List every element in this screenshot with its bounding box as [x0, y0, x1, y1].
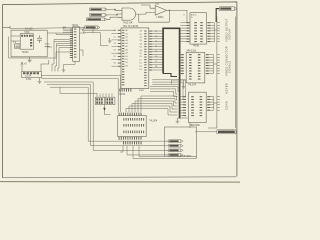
wire op-amp output and feedback loop [139, 10, 184, 22]
IC U5 body (large center) [121, 28, 149, 89]
svg-text:74166: 74166 [193, 46, 200, 48]
oscillator sub-box U1 [20, 34, 33, 50]
U9 lower second pin row [122, 141, 125, 144]
wire oscillator loop [11, 30, 47, 57]
net flag row 2 [90, 14, 108, 17]
U1 pin hatches top row [21, 35, 39, 74]
junction dot B [116, 14, 117, 15]
IC U2 body [73, 27, 80, 62]
wire U5 right pins to bus [152, 31, 162, 70]
U1 pin hatches right column [30, 39, 32, 41]
ground below SW1 [38, 78, 42, 84]
svg-text:Q4: Q4 [140, 43, 142, 45]
svg-text:74LS74: 74LS74 [188, 85, 197, 87]
net flag row 3 [86, 18, 107, 21]
net flag B4 [169, 154, 184, 157]
wire drops to U9 [118, 76, 120, 113]
wire oscillator to U2 [47, 33, 70, 47]
net flag row 1 [90, 8, 108, 11]
wire op-amp plus input [141, 5, 155, 8]
IC U9 body bottom-center [118, 116, 147, 137]
wire terminals to U5 [84, 28, 116, 46]
wire long horizontals from SW area [41, 76, 120, 88]
wire U6 right pins to connector [210, 23, 217, 42]
svg-text:MM 5320: MM 5320 [187, 51, 197, 53]
wire output down to U6 left pins [184, 10, 188, 22]
svg-text:7400: 7400 [24, 31, 30, 34]
wire fan U5 lower-right to U8 [150, 80, 185, 100]
RN2 hatches [107, 98, 109, 100]
svg-text:14.318: 14.318 [25, 28, 33, 31]
svg-text:Q6: Q6 [140, 50, 142, 52]
label pin numbers left of U5 [114, 30, 117, 64]
ground below oscillator box [28, 57, 32, 62]
svg-text:A2: A2 [126, 36, 128, 39]
svg-text:74S04: 74S04 [22, 51, 30, 54]
U9 top pin hatches [118, 113, 121, 116]
terminal circle T1 [82, 29, 84, 31]
label pin names inside U5 left edge [126, 29, 128, 67]
wire staircase from U9 bottom to flags [120, 146, 197, 159]
connector pin ticks middle group [217, 55, 220, 74]
page edge bottom shadow [0, 181, 240, 184]
arrowhead into U9 [103, 108, 106, 111]
connector box right side [217, 17, 235, 129]
IC U6 body top-right [190, 13, 206, 44]
wire U7 bottom left drop [172, 80, 187, 85]
wire vertical bus to SW1 [52, 40, 59, 72]
svg-text:D0: D0 [140, 56, 142, 58]
SW1 pin hatches [23, 72, 25, 74]
wire flags left stubs [166, 141, 169, 155]
U5 bottom pin hatches [118, 89, 121, 92]
svg-text:B0: B0 [126, 56, 128, 58]
svg-text:9334: 9334 [139, 90, 145, 92]
U7 right pin hatches [206, 54, 209, 55]
+5V arrow above SW1 [21, 62, 23, 71]
svg-text:Q0: Q0 [140, 31, 142, 33]
U2 inner pin hatches [74, 28, 76, 31]
wire top-left horizontal from border [3, 26, 85, 29]
junction dot A [114, 9, 115, 10]
wire flag1 to gate [108, 8, 123, 11]
svg-text:B3: B3 [126, 65, 128, 67]
crystal Y1 [15, 44, 20, 48]
svg-text:A5: A5 [126, 45, 128, 48]
U6 right pin hatches [207, 22, 210, 23]
U5 inner right hatch column [144, 30, 146, 33]
svg-text:A0: A0 [126, 29, 128, 32]
svg-text:74LS04: 74LS04 [149, 120, 158, 123]
U7 inner hatch columns [189, 54, 192, 55]
wire U3 output to op-amp [136, 12, 155, 14]
wire left L-feed [9, 37, 70, 59]
svg-text:Q3: Q3 [140, 40, 142, 42]
wire U7 right pins to connector [209, 55, 217, 74]
ground below U2 [62, 70, 66, 72]
svg-text:A1: A1 [126, 32, 128, 35]
terminal circle T2 [83, 32, 85, 34]
svg-text:D1: D1 [140, 59, 142, 61]
wire U2 lower-left inputs from bus [54, 40, 70, 48]
IC U7 body mid-right [186, 52, 205, 83]
IC U8 body lower-right [189, 92, 207, 122]
U9 bottom pin hatches [118, 137, 121, 140]
wire connector box bottom line [208, 127, 217, 129]
U8 left pin hatches [183, 96, 186, 97]
svg-text:Q7: Q7 [140, 53, 142, 55]
svg-text:DISPLAY: DISPLAY [229, 28, 232, 40]
net flag B3 [169, 149, 184, 152]
svg-text:Q2: Q2 [140, 37, 142, 39]
wire flag2 to gate [108, 13, 123, 16]
svg-text:74161: 74161 [72, 24, 79, 27]
wire U8 left pins to bus [180, 97, 183, 116]
wire box to label bar [195, 131, 217, 133]
wire U6 left pins to bus [180, 23, 186, 42]
U6 inner hatch columns [194, 22, 197, 23]
U8 inner hatch columns [191, 96, 194, 97]
wire fan U9 top to right ICs [126, 96, 178, 115]
U5 inner left hatch column [122, 29, 124, 32]
bottom right label bar [217, 130, 236, 134]
svg-text:B1: B1 [126, 59, 128, 61]
resistor pack RN2 body [106, 97, 115, 104]
ground below-left of U8 [176, 121, 180, 123]
svg-text:CONN: CONN [225, 101, 229, 110]
ground below U7 [182, 83, 186, 89]
svg-text:D3: D3 [140, 66, 142, 68]
svg-text:B2: B2 [126, 62, 128, 64]
svg-text:7412 S4: 7412 S4 [123, 20, 133, 24]
svg-text:A6: A6 [126, 48, 128, 51]
wire U2 upper-left inputs [56, 27, 70, 34]
nand gate U3 7412 [122, 8, 136, 20]
U8 right pin hatches [207, 96, 210, 97]
U5 left pin hatches [118, 30, 152, 92]
paper background [0, 0, 240, 186]
U7 left pin hatches [181, 54, 184, 55]
resistor pack RN1 body [96, 97, 105, 104]
U2 left pin hatches [70, 29, 77, 58]
svg-text:8: 8 [184, 14, 185, 16]
svg-text:74S 74 LS151: 74S 74 LS151 [123, 25, 139, 28]
wire top-right flag heavy drop [216, 9, 219, 22]
svg-text:MM57499: MM57499 [190, 125, 201, 127]
svg-text:D2: D2 [140, 63, 142, 65]
ground mid G3 [108, 39, 112, 43]
connector pin ticks top group [217, 23, 220, 42]
svg-text:Q5: Q5 [140, 47, 142, 49]
wire U8 bottom drop left [178, 118, 191, 128]
bus thick n-shape [163, 28, 180, 118]
border frame [3, 2, 237, 178]
net flag B1 [169, 140, 184, 143]
wire SW1 top-right up to U2 area [41, 60, 49, 71]
wire resistor pack feeds [60, 87, 112, 97]
capacitor C2 [45, 44, 50, 46]
U5 right outer pin hatches [149, 30, 152, 33]
label U6 inside top [191, 13, 197, 18]
wire bus elbow to right [163, 74, 177, 77]
label pin numbers right of U5 [155, 31, 158, 68]
svg-text:555: 555 [155, 3, 160, 6]
wire U8 right pins to connector [210, 97, 217, 111]
wire U2 bottom to ground [64, 61, 76, 70]
connector pin ticks lower group [217, 97, 220, 111]
border frame inner bottom line [3, 176, 236, 179]
svg-text:4702: 4702 [26, 78, 32, 81]
net flag B2 [169, 144, 184, 147]
wire left verticals down to flags [88, 82, 168, 150]
svg-text:D4: D4 [140, 69, 142, 71]
top-right net flag [219, 7, 236, 11]
wire U2 right pins [80, 26, 84, 56]
capacitor C1 [37, 35, 42, 43]
U9 inner hatch rows [122, 118, 125, 121]
wire U5 left pin stubs [112, 34, 118, 67]
svg-text:A4: A4 [126, 42, 128, 45]
svg-text:KEYBD: KEYBD [225, 83, 229, 94]
svg-text:A7: A7 [126, 52, 128, 55]
dip switch SW1 body [22, 71, 42, 77]
net flag row 4 [85, 26, 100, 29]
svg-text:LM311: LM311 [157, 16, 165, 19]
junction dot op-amp output [169, 10, 170, 11]
label pin names inside U5 right edge [140, 31, 142, 71]
wire flag3 to gate [107, 17, 122, 19]
svg-text:74154: 74154 [119, 93, 126, 96]
wire arrow from pack to U9 [105, 105, 111, 115]
RN1 hatches [96, 98, 98, 100]
svg-text:Q1: Q1 [140, 34, 142, 36]
svg-text:A3: A3 [126, 39, 128, 42]
svg-text:SIGNALS: SIGNALS [229, 60, 232, 73]
svg-text:KEYBOARD: KEYBOARD [180, 154, 193, 157]
bottom-right box [165, 127, 197, 157]
U6 left pin hatches [187, 22, 190, 23]
op-amp U4 [155, 6, 166, 16]
